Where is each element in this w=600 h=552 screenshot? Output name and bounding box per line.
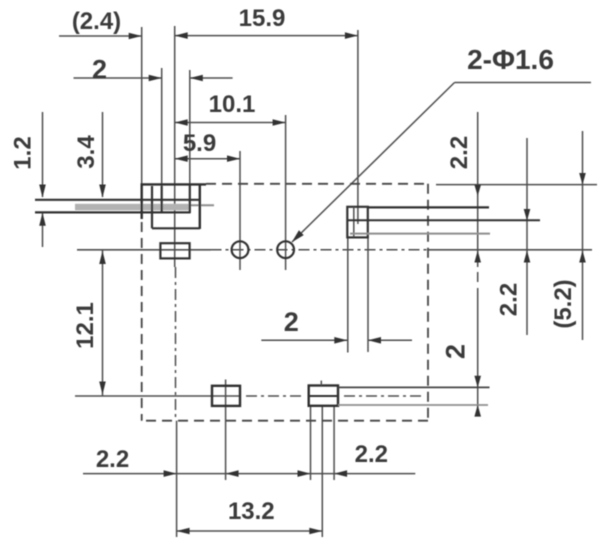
svg-text:2.2: 2.2 [496, 283, 523, 316]
svg-text:2.2: 2.2 [96, 446, 129, 473]
svg-text:2-Φ1.6: 2-Φ1.6 [467, 44, 554, 75]
svg-text:2: 2 [441, 344, 471, 359]
svg-text:(5.2): (5.2) [550, 279, 577, 328]
svg-text:3.4: 3.4 [73, 135, 100, 169]
svg-text:5.9: 5.9 [183, 130, 216, 157]
svg-text:2: 2 [92, 55, 107, 85]
svg-text:2.2: 2.2 [355, 441, 388, 468]
svg-text:13.2: 13.2 [228, 498, 275, 525]
svg-text:15.9: 15.9 [239, 5, 286, 32]
svg-text:10.1: 10.1 [209, 91, 256, 118]
svg-text:2.2: 2.2 [446, 136, 473, 169]
svg-text:(2.4): (2.4) [72, 8, 121, 35]
svg-text:2: 2 [284, 307, 299, 337]
svg-text:1.2: 1.2 [10, 136, 37, 169]
svg-text:12.1: 12.1 [72, 302, 99, 349]
